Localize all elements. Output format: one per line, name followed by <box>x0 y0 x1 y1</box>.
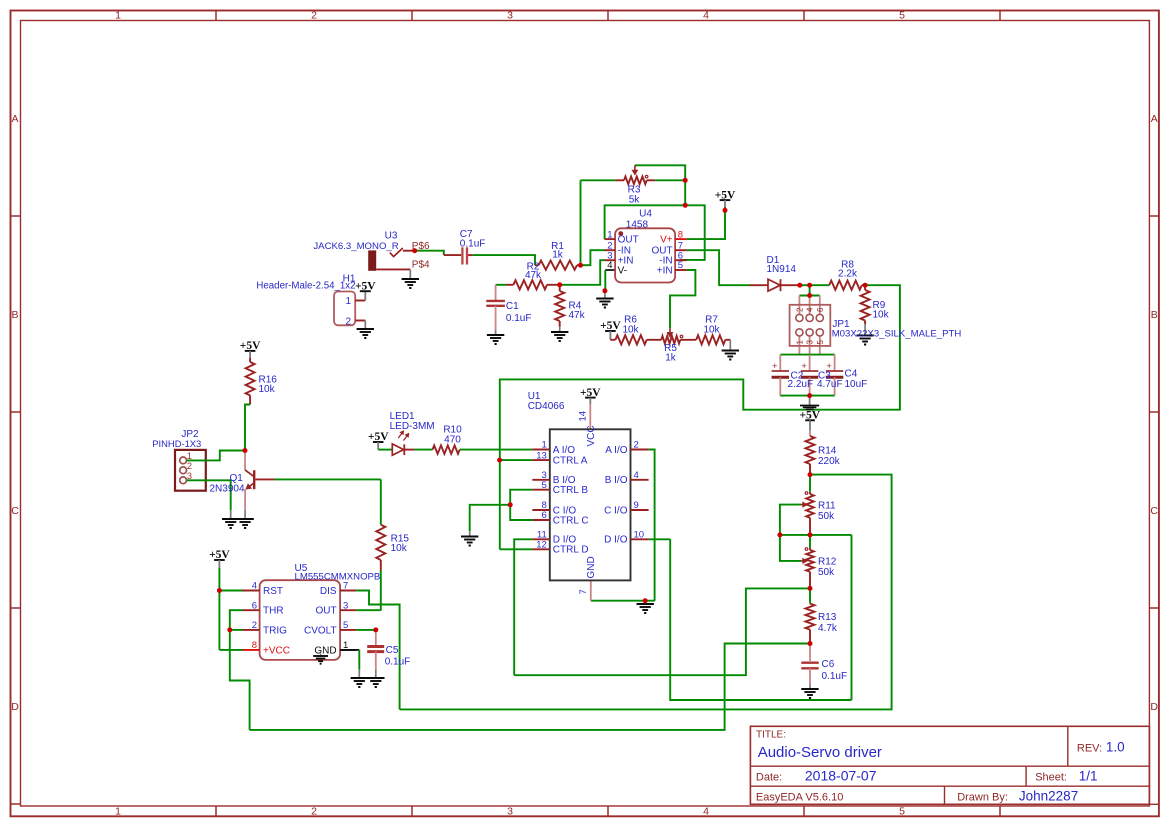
svg-text:D: D <box>11 701 19 713</box>
svg-text:R13: R13 <box>818 612 837 623</box>
svg-text:2.2uF: 2.2uF <box>788 379 814 390</box>
svg-text:+: + <box>801 361 806 371</box>
svg-text:2: 2 <box>795 307 804 312</box>
svg-text:GND: GND <box>314 645 336 656</box>
svg-text:1N914: 1N914 <box>767 264 797 275</box>
svg-text:5: 5 <box>542 480 547 491</box>
svg-text:+: + <box>772 361 777 371</box>
svg-text:3: 3 <box>343 600 348 611</box>
svg-text:TITLE:: TITLE: <box>756 730 786 741</box>
svg-text:CTRL B: CTRL B <box>553 485 589 496</box>
svg-text:+5V: +5V <box>715 189 736 201</box>
svg-text:+IN: +IN <box>657 265 673 276</box>
svg-text:10k: 10k <box>622 324 639 335</box>
svg-text:C5: C5 <box>386 645 399 656</box>
svg-text:0.1uF: 0.1uF <box>506 313 532 324</box>
svg-text:4: 4 <box>806 307 815 312</box>
svg-text:REV:: REV: <box>1077 743 1102 755</box>
svg-text:47k: 47k <box>525 270 542 281</box>
svg-text:0.1uF: 0.1uF <box>460 239 486 250</box>
svg-text:OUT: OUT <box>618 235 639 246</box>
svg-text:+VCC: +VCC <box>263 645 290 656</box>
svg-text:5: 5 <box>899 9 905 21</box>
svg-text:2.2k: 2.2k <box>838 269 858 280</box>
svg-text:OUT: OUT <box>315 606 336 617</box>
svg-text:A: A <box>11 113 18 125</box>
svg-text:10k: 10k <box>873 310 890 321</box>
svg-text:1: 1 <box>115 806 121 818</box>
svg-text:10: 10 <box>634 530 645 541</box>
svg-text:10k: 10k <box>259 384 276 395</box>
svg-text:12: 12 <box>536 540 547 551</box>
svg-text:EasyEDA V5.6.10: EasyEDA V5.6.10 <box>756 792 843 804</box>
svg-text:1: 1 <box>795 340 804 345</box>
svg-text:B I/O: B I/O <box>605 475 628 486</box>
svg-text:4: 4 <box>252 581 257 592</box>
svg-text:3: 3 <box>806 340 815 345</box>
svg-text:+5V: +5V <box>355 280 376 292</box>
svg-text:Q1: Q1 <box>230 473 244 484</box>
svg-text:1: 1 <box>345 296 351 307</box>
svg-text:C6: C6 <box>822 659 835 670</box>
svg-text:D: D <box>1150 701 1158 713</box>
svg-text:B: B <box>1151 309 1158 321</box>
svg-text:5k: 5k <box>629 194 641 205</box>
svg-text:C4: C4 <box>845 369 858 380</box>
svg-text:9: 9 <box>634 500 639 511</box>
svg-text:Audio-Servo driver: Audio-Servo driver <box>758 744 882 761</box>
svg-text:2018-07-07: 2018-07-07 <box>805 768 877 784</box>
svg-text:2: 2 <box>634 440 639 451</box>
svg-text:8: 8 <box>678 229 683 240</box>
svg-text:CVOLT: CVOLT <box>304 625 337 636</box>
svg-text:1k: 1k <box>552 250 564 261</box>
svg-text:P$4: P$4 <box>412 260 430 271</box>
svg-text:14: 14 <box>578 411 589 422</box>
svg-text:C1: C1 <box>506 301 519 312</box>
svg-text:Sheet:: Sheet: <box>1035 772 1067 784</box>
svg-text:Date:: Date: <box>756 772 782 784</box>
svg-text:CTRL C: CTRL C <box>553 515 589 526</box>
svg-text:2: 2 <box>345 316 351 327</box>
svg-text:+5V: +5V <box>368 431 389 443</box>
svg-text:7: 7 <box>578 589 589 594</box>
svg-text:JACK6.3_MONO_R: JACK6.3_MONO_R <box>313 241 398 252</box>
svg-text:0.1uF: 0.1uF <box>822 671 848 682</box>
svg-text:Drawn By:: Drawn By: <box>957 792 1008 804</box>
svg-text:U4: U4 <box>639 209 652 220</box>
svg-text:+5V: +5V <box>209 549 230 561</box>
svg-text:John2287: John2287 <box>1019 789 1078 804</box>
svg-text:D I/O: D I/O <box>604 535 628 546</box>
svg-text:V-: V- <box>618 265 627 276</box>
svg-text:5: 5 <box>899 806 905 818</box>
svg-text:5: 5 <box>816 340 825 345</box>
svg-text:3: 3 <box>507 9 513 21</box>
svg-text:R11: R11 <box>818 500 836 511</box>
svg-text:C: C <box>11 505 19 517</box>
svg-text:GND: GND <box>586 556 597 578</box>
svg-text:1/1: 1/1 <box>1079 769 1098 784</box>
svg-text:8: 8 <box>252 640 257 651</box>
svg-text:6: 6 <box>816 307 825 312</box>
svg-text:4.7k: 4.7k <box>818 623 838 634</box>
svg-text:4: 4 <box>703 9 709 21</box>
svg-text:2: 2 <box>311 806 317 818</box>
svg-text:LM555CMMXNOPB: LM555CMMXNOPB <box>295 571 381 582</box>
svg-text:C: C <box>1150 505 1158 517</box>
svg-text:CTRL D: CTRL D <box>553 545 589 556</box>
svg-text:1: 1 <box>115 9 121 21</box>
svg-text:A I/O: A I/O <box>605 445 627 456</box>
svg-text:2: 2 <box>311 9 317 21</box>
svg-text:DIS: DIS <box>320 586 337 597</box>
svg-text:1: 1 <box>343 640 348 651</box>
svg-text:470: 470 <box>444 435 461 446</box>
svg-text:1458: 1458 <box>626 219 649 230</box>
svg-text:6: 6 <box>542 510 547 521</box>
svg-text:+5V: +5V <box>600 320 621 332</box>
svg-text:47k: 47k <box>569 310 586 321</box>
svg-text:Header-Male-2.54_1x2: Header-Male-2.54_1x2 <box>256 281 355 292</box>
svg-text:0.1uF: 0.1uF <box>385 657 411 668</box>
svg-text:C I/O: C I/O <box>604 505 628 516</box>
svg-text:4.7uF: 4.7uF <box>817 379 843 390</box>
svg-text:5: 5 <box>343 620 348 631</box>
svg-text:A: A <box>1151 113 1158 125</box>
svg-text:2: 2 <box>252 620 257 631</box>
svg-text:5: 5 <box>678 260 683 271</box>
svg-text:PINHD-1X3: PINHD-1X3 <box>152 438 201 449</box>
svg-text:+: + <box>826 361 831 371</box>
svg-text:+5V: +5V <box>240 340 261 352</box>
svg-text:TRIG: TRIG <box>263 625 287 636</box>
svg-text:LED-3MM: LED-3MM <box>390 421 435 432</box>
svg-text:CTRL A: CTRL A <box>553 456 588 467</box>
svg-text:B: B <box>11 309 18 321</box>
svg-text:10k: 10k <box>703 324 720 335</box>
svg-text:RST: RST <box>263 586 283 597</box>
svg-text:1: 1 <box>607 229 612 240</box>
svg-text:2N3904: 2N3904 <box>210 484 245 495</box>
svg-text:4: 4 <box>634 470 639 481</box>
svg-text:VCC: VCC <box>586 425 597 446</box>
svg-text:+5V: +5V <box>580 387 601 399</box>
svg-text:3: 3 <box>507 806 513 818</box>
svg-text:1k: 1k <box>665 353 677 364</box>
svg-text:13: 13 <box>536 450 547 461</box>
svg-text:A I/O: A I/O <box>553 445 575 456</box>
svg-text:R14: R14 <box>818 446 837 457</box>
svg-text:R12: R12 <box>818 556 837 567</box>
svg-text:CD4066: CD4066 <box>528 401 565 412</box>
svg-text:U3: U3 <box>385 230 398 241</box>
svg-text:50k: 50k <box>818 511 835 522</box>
svg-text:V+: V+ <box>660 235 673 246</box>
svg-text:4: 4 <box>607 260 612 271</box>
svg-text:6: 6 <box>252 600 257 611</box>
svg-text:10k: 10k <box>391 543 408 554</box>
svg-text:220k: 220k <box>818 456 841 467</box>
svg-text:7: 7 <box>343 581 348 592</box>
svg-text:THR: THR <box>263 606 284 617</box>
svg-text:10uF: 10uF <box>845 379 868 390</box>
svg-text:M03X22X3_SILK_MALE_PTH: M03X22X3_SILK_MALE_PTH <box>832 328 962 339</box>
svg-text:1.0: 1.0 <box>1106 740 1125 755</box>
svg-text:50k: 50k <box>818 567 835 578</box>
svg-text:4: 4 <box>703 806 709 818</box>
svg-text:1: 1 <box>542 440 547 451</box>
